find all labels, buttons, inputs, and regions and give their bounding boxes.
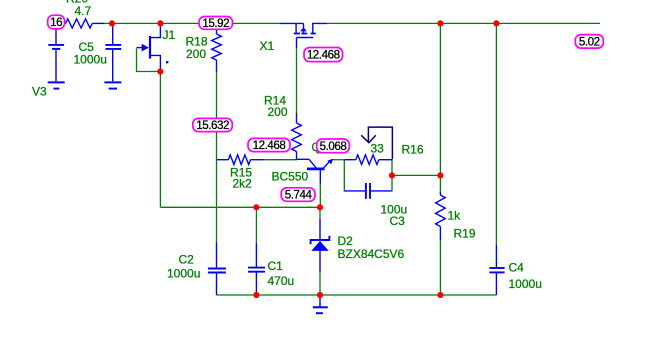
junction dot C1 top (253, 204, 259, 210)
svg-text:D2: D2 (338, 234, 354, 248)
node 5.02 (575, 35, 603, 49)
wire pot junction to R19 column (392, 174, 440, 176)
resistor R20 (64, 19, 104, 28)
resistor R15 (217, 155, 264, 165)
transistor Q (BC550) (297, 159, 333, 184)
wire R15 to base junction (264, 159, 298, 161)
wire C3 left branch drop (343, 160, 345, 192)
wire C1 top branch (255, 207, 257, 243)
wire X1 gate column down to R14 (296, 48, 298, 114)
svg-text:C4: C4 (509, 261, 525, 275)
ground at bottom rail (313, 295, 328, 313)
svg-text:C2: C2 (179, 253, 195, 267)
svg-text:16: 16 (50, 16, 62, 29)
svg-text:J1: J1 (163, 28, 176, 42)
node 5.744 (281, 188, 315, 202)
svg-text:470u: 470u (268, 274, 295, 288)
wire J1 gate tie loop (137, 49, 161, 72)
node 15.632 (193, 118, 233, 132)
capacitor C4 (489, 245, 504, 295)
wire emitter to R16 (332, 159, 345, 161)
svg-text:V3: V3 (32, 84, 47, 98)
svg-text:C1: C1 (268, 259, 284, 273)
wire R18-R15-C2 column (216, 71, 218, 243)
wire zener to ground rail (319, 272, 321, 296)
pot R16 wiper loop (361, 127, 392, 159)
node 5.068 (317, 139, 350, 153)
svg-text:R19: R19 (454, 226, 476, 240)
capacitor C5 (105, 24, 121, 81)
resistor R14 (292, 113, 302, 160)
capacitor C2 (208, 243, 226, 296)
svg-text:200: 200 (186, 47, 206, 61)
svg-text:5.744: 5.744 (285, 189, 313, 202)
transistor J1 (JFET) (137, 23, 161, 71)
svg-text:15.632: 15.632 (196, 119, 229, 132)
wire base node to zener (319, 207, 321, 218)
junction dot R19 bottom (437, 292, 443, 298)
junction dot R19 top (437, 20, 443, 26)
junction dot pot output (389, 172, 395, 178)
svg-text:4.7: 4.7 (75, 4, 92, 18)
svg-text:BC550: BC550 (272, 170, 309, 184)
junction dot J1 drain (157, 20, 163, 26)
junction dot J1 gate-source (157, 68, 163, 74)
ground under V3 (48, 82, 65, 88)
svg-text:2k2: 2k2 (233, 176, 253, 190)
svg-text:15.92: 15.92 (202, 17, 229, 30)
wire top rail left segment (node 15.92) (104, 22, 281, 24)
node 12.468 at X1 (304, 48, 343, 62)
node 15.92 (199, 17, 233, 31)
svg-text:1000u: 1000u (509, 277, 542, 291)
resistor R19 (436, 192, 446, 241)
svg-text:R16: R16 (402, 143, 424, 157)
junction dot C1 bottom (253, 292, 259, 298)
svg-text:200: 200 (268, 105, 288, 119)
svg-text:1000u: 1000u (74, 52, 107, 66)
svg-text:5.068: 5.068 (320, 140, 347, 153)
wire base lead lower part (319, 183, 321, 207)
wire R19 bottom link (439, 241, 441, 296)
ground under C5 (104, 82, 121, 88)
wire C4 top column (495, 23, 497, 245)
wire bottom ground rail (217, 294, 497, 296)
transistor X1 (MOSFET) (280, 23, 327, 48)
resistor R16 (pot) (344, 155, 392, 165)
svg-text:X1: X1 (260, 39, 275, 53)
svg-text:5.02: 5.02 (579, 36, 600, 49)
node 12.468 at R14 (248, 138, 290, 152)
svg-text:12.468: 12.468 (253, 139, 286, 152)
junction dot C4 top (493, 20, 499, 26)
svg-text:BZX84C5V6: BZX84C5V6 (338, 247, 405, 261)
battery V3 (48, 29, 64, 81)
wire base row (node 5.744) (160, 206, 320, 208)
junction dot base node (317, 204, 323, 210)
svg-text:C3: C3 (390, 214, 406, 228)
diode D2 (zener) (311, 219, 330, 273)
svg-text:33: 33 (371, 142, 385, 156)
capacitor C3 (344, 183, 391, 199)
svg-text:12.468: 12.468 (307, 49, 340, 62)
svg-text:1000u: 1000u (167, 267, 200, 281)
wire top rail right segment (node 5.02) (327, 22, 600, 24)
capacitor C1 (248, 243, 265, 295)
wire R19 top column (439, 23, 441, 192)
junction dot R19 mid (437, 172, 443, 178)
wire J1 source/gate column down to base row (159, 72, 161, 207)
svg-text:1k: 1k (448, 209, 462, 223)
node 16 (48, 15, 65, 29)
wire R16 right terminal drop (391, 160, 393, 192)
junction dot R20/C5 (109, 20, 115, 26)
junction dot ground stub (317, 292, 323, 298)
stray dot near J1 (166, 61, 168, 63)
resistor R18 (212, 29, 222, 72)
